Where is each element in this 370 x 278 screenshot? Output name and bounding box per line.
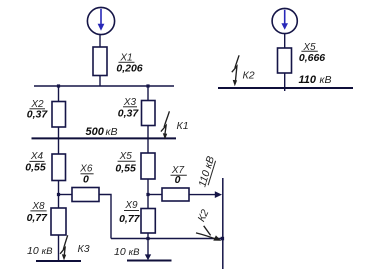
svg-text:0,55: 0,55: [115, 163, 136, 175]
source G1 (left system source circle): [87, 7, 114, 34]
fault K2 lightning arrow (right diagram): [232, 55, 239, 86]
svg-text:Х9: Х9: [124, 200, 138, 211]
svg-text:500: 500: [86, 126, 105, 138]
label K2 (rotated, left diagram): [195, 208, 211, 224]
bus 10 kV (center): [127, 260, 172, 262]
node junction dot right branch X7 tap: [146, 193, 149, 196]
label 500 kV: [86, 126, 118, 138]
label 110 kV (rotated): [196, 155, 217, 189]
wire source G1 to X1: [99, 35, 101, 47]
svg-text:Х4: Х4: [30, 151, 44, 162]
wire right branch to X7: [148, 194, 162, 196]
svg-text:Х5: Х5: [119, 151, 133, 162]
svg-text:10 кВ: 10 кВ: [27, 245, 53, 257]
fault K1 lightning arrow: [161, 111, 170, 139]
node junction dots on top connector: [57, 84, 60, 87]
wire X8 to 10kV bus: [58, 235, 60, 261]
wire top connector node: [34, 85, 174, 87]
resistor X7 (horizontal): [162, 188, 189, 201]
resistor X9: [141, 209, 155, 234]
resistor X6 (horizontal): [72, 188, 99, 202]
svg-text:К1: К1: [177, 120, 189, 132]
wire 110kV vertical line: [222, 178, 224, 269]
label X9 0,77: [119, 200, 141, 225]
svg-text:кВ: кВ: [320, 74, 332, 86]
wire X9 down through node to 10kV bus with arrow: [145, 233, 151, 260]
svg-text:0,55: 0,55: [25, 162, 46, 174]
label X8 0,77: [27, 201, 49, 224]
bus 110 kV (right): [218, 87, 353, 89]
wire X7 to 110kV line with arrow: [189, 191, 222, 198]
wire X6 right to drop: [99, 195, 111, 239]
wire bottom tie line: [111, 238, 222, 240]
wire source G2 to X5eq: [284, 34, 286, 48]
wire 500kV bus to X4: [58, 139, 60, 154]
svg-text:0,37: 0,37: [118, 108, 140, 120]
label X4 0,55: [25, 151, 46, 174]
svg-text:110: 110: [299, 74, 317, 86]
source G2 (right system source circle): [272, 8, 297, 33]
wire top node to X2: [58, 87, 60, 102]
label X2 0,37: [27, 99, 49, 121]
svg-text:0,77: 0,77: [119, 213, 141, 225]
resistor X5: [141, 153, 155, 179]
svg-text:К2: К2: [243, 69, 255, 81]
label X7 0: [171, 165, 187, 186]
resistor X8: [51, 208, 66, 235]
wire 500kV bus to X5: [147, 139, 149, 153]
node junction dot tie line at 110kV line: [221, 237, 225, 241]
wire X2 to 500kV bus: [58, 127, 60, 139]
svg-text:Х8: Х8: [31, 201, 45, 212]
resistor X2: [52, 102, 66, 128]
label X3 0,37: [118, 97, 140, 119]
svg-text:0: 0: [175, 174, 181, 186]
wire left branch to X6: [59, 194, 73, 196]
label 110 kV (right): [299, 74, 332, 86]
svg-text:0,37: 0,37: [27, 109, 49, 121]
wire X1 to top node: [99, 76, 101, 87]
wire X5eq to 110kV bus: [284, 73, 286, 91]
label X5 0,55: [115, 151, 136, 174]
svg-text:кВ: кВ: [106, 126, 118, 138]
bus 500 kV: [32, 137, 177, 139]
wire X5 to X9: [147, 179, 149, 209]
wire X3 to 500kV bus: [147, 126, 149, 140]
bus 10 kV (left): [36, 260, 81, 262]
resistor X3: [142, 101, 156, 126]
fault K2 lightning arrow (left diagram): [196, 226, 221, 241]
svg-text:0,666: 0,666: [299, 52, 325, 64]
wire X4 to X8: [58, 181, 60, 209]
resistor X1: [93, 47, 107, 76]
svg-text:10 кВ: 10 кВ: [114, 246, 140, 258]
fault K3 lightning arrow: [60, 235, 68, 260]
node junction dot X9 on tie line: [146, 237, 149, 240]
svg-text:0: 0: [83, 173, 89, 185]
label X5eq 0,666: [299, 42, 325, 64]
node junction dot left branch X6 tap: [57, 193, 60, 196]
resistor X5eq (right diagram): [278, 48, 292, 73]
svg-text:К3: К3: [78, 243, 90, 255]
resistor X4: [52, 154, 66, 181]
svg-text:0,77: 0,77: [27, 212, 49, 224]
label X6 0: [79, 164, 93, 186]
svg-text:0,206: 0,206: [116, 62, 142, 74]
label X1 0,206: [116, 53, 142, 75]
wire top node to X3: [147, 87, 149, 101]
